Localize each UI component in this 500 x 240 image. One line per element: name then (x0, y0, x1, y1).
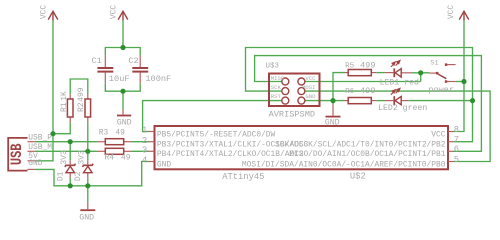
svg-text:VCC: VCC (110, 5, 119, 19)
svg-text:3V3: 3V3 (60, 150, 69, 164)
svg-text:GND: GND (305, 93, 316, 100)
svg-text:GND: GND (28, 159, 42, 168)
svg-text:49: 49 (121, 154, 131, 163)
svg-text:LED2 green: LED2 green (378, 104, 427, 113)
svg-text:5: 5 (454, 155, 459, 165)
svg-text:GND: GND (157, 160, 171, 169)
svg-text:3: 3 (142, 145, 147, 155)
svg-text:6: 6 (454, 145, 459, 155)
svg-text:PB5/PCINT5/-RESET/ADC0/DW: PB5/PCINT5/-RESET/ADC0/DW (157, 130, 276, 139)
svg-text:ATtiny45: ATtiny45 (222, 172, 264, 182)
svg-text:AVRISPSMD: AVRISPSMD (269, 110, 315, 120)
svg-text:power: power (428, 85, 454, 95)
svg-text:S1: S1 (430, 59, 438, 67)
svg-text:SCK: SCK (271, 84, 282, 91)
svg-text:499: 499 (360, 60, 375, 70)
svg-text:100nF: 100nF (145, 74, 171, 84)
svg-text:499: 499 (77, 87, 86, 101)
svg-text:GND: GND (79, 213, 94, 222)
svg-text:C1: C1 (92, 56, 102, 66)
svg-text:R2: R2 (77, 102, 86, 112)
svg-text:USB_M: USB_M (28, 143, 52, 152)
svg-text:499: 499 (360, 86, 375, 96)
svg-text:U$3: U$3 (266, 63, 280, 71)
svg-text:R3: R3 (99, 128, 109, 137)
svg-text:GND: GND (117, 119, 132, 128)
svg-text:RST: RST (271, 93, 282, 100)
svg-text:7: 7 (454, 135, 459, 145)
svg-text:1K: 1K (60, 91, 69, 101)
svg-text:R6: R6 (345, 88, 355, 96)
svg-text:8: 8 (454, 125, 459, 135)
svg-text:2: 2 (142, 136, 147, 146)
svg-text:USB: USB (10, 144, 27, 166)
svg-text:SCK/USCK/SCL/ADC1/T0/INT0/PCIN: SCK/USCK/SCL/ADC1/T0/INT0/PCINT2/PB2 (275, 141, 446, 150)
svg-text:U$2: U$2 (350, 171, 366, 181)
svg-text:MOSI/DI/SDA/AIN0/OC0A/-OC1A/AR: MOSI/DI/SDA/AIN0/OC0A/-OC1A/AREF/PCINT0/… (242, 160, 446, 169)
svg-text:LED1 red: LED1 red (380, 78, 419, 88)
svg-text:D2: D2 (74, 171, 83, 181)
svg-text:10uF: 10uF (109, 74, 130, 84)
svg-text:D1: D1 (56, 171, 65, 181)
svg-text:MISO: MISO (271, 75, 285, 82)
svg-text:MOSI: MOSI (302, 84, 315, 91)
svg-text:4: 4 (142, 156, 147, 166)
svg-text:3V3: 3V3 (77, 150, 86, 164)
svg-text:USB_P: USB_P (28, 134, 52, 143)
svg-text:1: 1 (142, 126, 147, 136)
svg-text:VCC: VCC (40, 5, 49, 19)
svg-text:PB4/PCINT4/XTAL2/CLKO/OC1B/ADC: PB4/PCINT4/XTAL2/CLKO/OC1B/ADC2 (157, 150, 304, 159)
svg-text:49: 49 (115, 128, 125, 137)
svg-text:VCC: VCC (305, 75, 316, 82)
svg-text:R4: R4 (105, 154, 115, 163)
svg-text:R1: R1 (60, 102, 69, 112)
svg-text:VCC: VCC (431, 130, 445, 139)
svg-text:VCC: VCC (447, 5, 456, 19)
svg-text:R5: R5 (345, 62, 355, 70)
svg-text:C2: C2 (128, 56, 138, 66)
svg-text:MISO/DO/AIN1/OC0B/OC1A/PCINT1/: MISO/DO/AIN1/OC0B/OC1A/PCINT1/PB1 (289, 150, 446, 159)
